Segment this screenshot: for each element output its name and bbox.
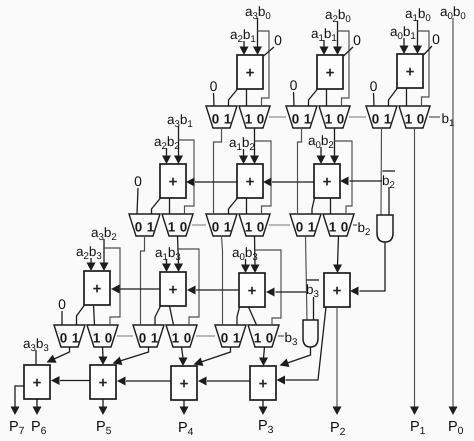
svg-text:+: + xyxy=(259,376,268,393)
svg-text:0: 0 xyxy=(292,112,300,127)
svg-text:1: 1 xyxy=(224,220,232,235)
svg-text:1: 1 xyxy=(325,112,333,127)
svg-text:0: 0 xyxy=(221,331,229,346)
svg-text:+: + xyxy=(248,283,257,300)
svg-text:0: 0 xyxy=(372,112,380,127)
svg-text:0: 0 xyxy=(212,112,220,127)
svg-text:0: 0 xyxy=(134,173,142,189)
svg-text:0: 0 xyxy=(353,32,361,48)
svg-text:0: 0 xyxy=(212,220,220,235)
svg-text:1: 1 xyxy=(233,331,241,346)
svg-text:1: 1 xyxy=(168,220,176,235)
svg-text:1: 1 xyxy=(151,331,159,346)
svg-text:0: 0 xyxy=(257,112,265,127)
svg-text:0: 0 xyxy=(184,331,192,346)
svg-text:0: 0 xyxy=(296,220,304,235)
svg-text:+: + xyxy=(333,283,342,300)
svg-text:0: 0 xyxy=(58,296,66,312)
svg-text:+: + xyxy=(406,64,415,81)
svg-text:1: 1 xyxy=(72,331,80,346)
svg-text:+: + xyxy=(180,376,189,393)
svg-text:0: 0 xyxy=(105,331,113,346)
svg-text:1: 1 xyxy=(254,331,262,346)
svg-text:1: 1 xyxy=(245,220,253,235)
svg-text:+: + xyxy=(33,375,42,392)
svg-text:1: 1 xyxy=(329,220,337,235)
svg-text:1: 1 xyxy=(93,331,101,346)
svg-text:0: 0 xyxy=(139,331,147,346)
svg-text:+: + xyxy=(99,375,108,392)
svg-text:0: 0 xyxy=(266,331,274,346)
svg-text:+: + xyxy=(326,65,335,82)
svg-text:0: 0 xyxy=(337,112,345,127)
svg-text:1: 1 xyxy=(405,112,413,127)
svg-text:0: 0 xyxy=(290,77,298,93)
svg-text:+: + xyxy=(246,65,255,82)
svg-text:+: + xyxy=(169,282,178,299)
svg-text:1: 1 xyxy=(308,220,316,235)
svg-text:0: 0 xyxy=(432,31,440,47)
svg-text:0: 0 xyxy=(417,112,425,127)
svg-text:0: 0 xyxy=(210,78,218,94)
svg-text:1: 1 xyxy=(384,112,392,127)
svg-text:1: 1 xyxy=(147,220,155,235)
svg-text:0: 0 xyxy=(370,78,378,94)
svg-text:0: 0 xyxy=(60,331,68,346)
svg-text:1: 1 xyxy=(245,112,253,127)
svg-text:1: 1 xyxy=(224,112,232,127)
svg-text:+: + xyxy=(323,174,332,191)
svg-text:1: 1 xyxy=(172,331,180,346)
svg-text:1: 1 xyxy=(304,112,312,127)
svg-text:+: + xyxy=(169,174,178,191)
svg-text:0: 0 xyxy=(274,32,282,48)
svg-text:0: 0 xyxy=(341,220,349,235)
svg-text:0: 0 xyxy=(180,220,188,235)
svg-text:+: + xyxy=(93,281,102,298)
svg-text:+: + xyxy=(246,174,255,191)
svg-text:0: 0 xyxy=(135,220,143,235)
svg-text:0: 0 xyxy=(257,220,265,235)
